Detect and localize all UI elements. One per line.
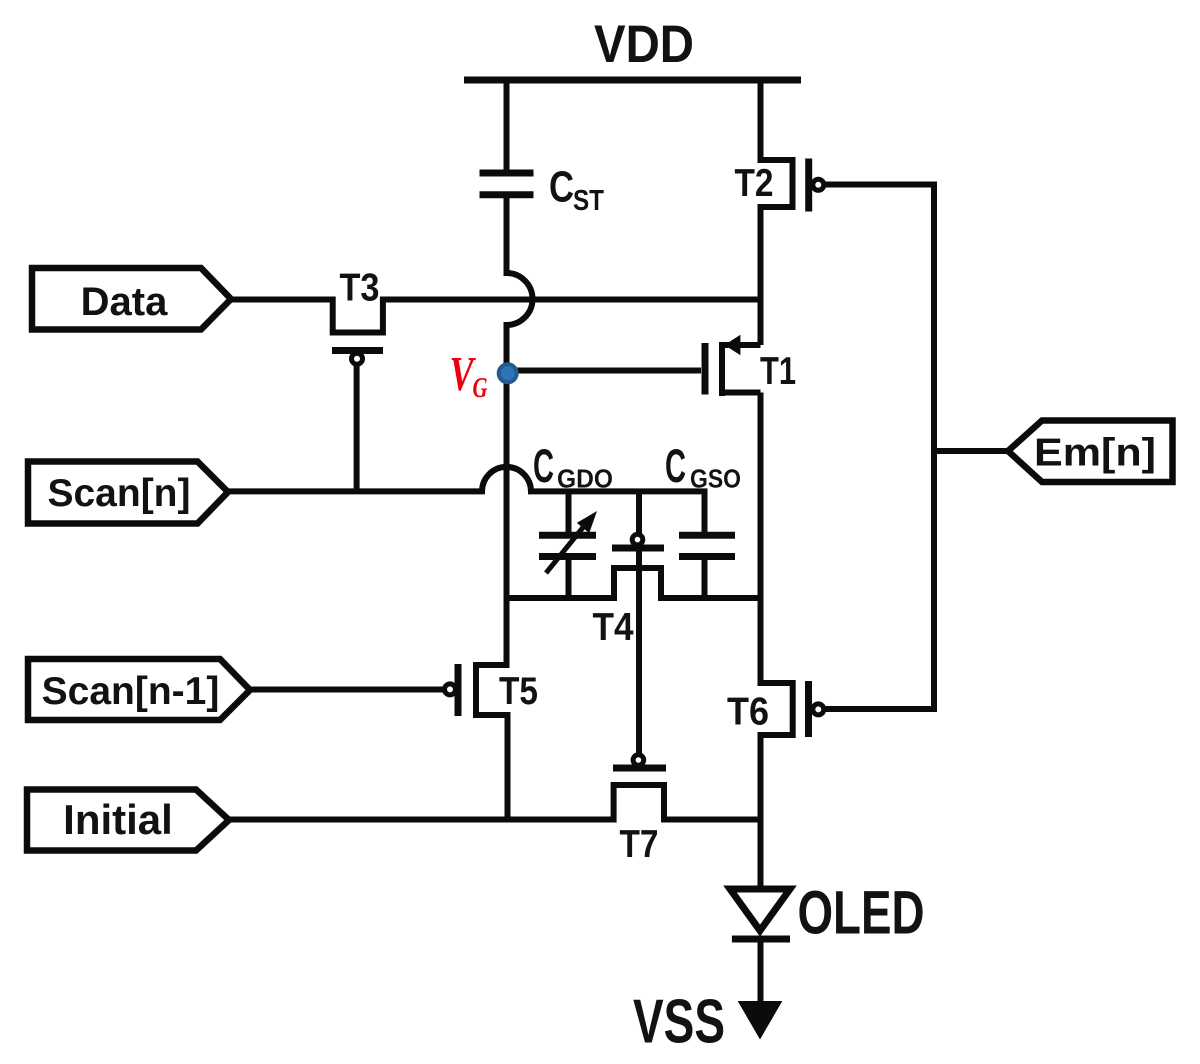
svg-text:Em[n]: Em[n]: [1034, 432, 1156, 475]
svg-text:T6: T6: [727, 691, 769, 734]
svg-text:OLED: OLED: [798, 879, 925, 947]
svg-text:T1: T1: [760, 350, 796, 393]
svg-text:C: C: [549, 163, 574, 212]
svg-text:Initial: Initial: [63, 796, 173, 843]
svg-text:T2: T2: [735, 162, 774, 205]
svg-text:Scan[n]: Scan[n]: [47, 472, 190, 515]
svg-text:ST: ST: [573, 185, 604, 217]
svg-text:T7: T7: [620, 823, 659, 866]
svg-text:T5: T5: [499, 670, 538, 713]
svg-text:GSO: GSO: [690, 464, 741, 494]
svg-text:C: C: [533, 439, 554, 492]
svg-text:VDD: VDD: [594, 15, 694, 74]
svg-text:GDO: GDO: [557, 464, 613, 494]
svg-text:VSS: VSS: [633, 988, 725, 1057]
svg-text:G: G: [473, 372, 488, 404]
svg-text:Data: Data: [81, 280, 168, 324]
svg-text:Scan[n-1]: Scan[n-1]: [42, 670, 220, 713]
svg-text:T4: T4: [593, 606, 634, 649]
svg-text:T3: T3: [340, 267, 380, 310]
svg-text:C: C: [665, 439, 686, 492]
